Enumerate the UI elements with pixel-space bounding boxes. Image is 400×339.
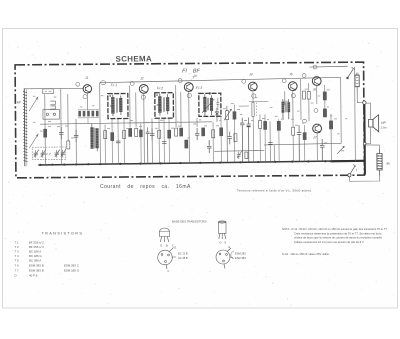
svg-text:BASE DES TRANSISTORS: BASE DES TRANSISTORS bbox=[172, 220, 207, 224]
wire R3b bbox=[140, 123, 142, 163]
cylinder case bbox=[219, 221, 227, 239]
variable cap 3 bbox=[55, 150, 60, 158]
resistor R19 bbox=[323, 109, 326, 117]
node on battery line lower bbox=[363, 142, 366, 145]
wire R21 bbox=[304, 125, 306, 161]
power switch lever bbox=[350, 164, 356, 174]
T3 stage vertical wires bbox=[176, 85, 198, 163]
wire mid line left bbox=[214, 149, 264, 152]
wire R15 bbox=[292, 119, 294, 161]
resistor R11 bbox=[259, 120, 262, 128]
svg-text:D: D bbox=[15, 274, 17, 278]
capacitor C7 bbox=[240, 118, 245, 162]
capacitor pair under pot bbox=[228, 132, 232, 145]
paper scan speckle bbox=[5, 31, 395, 306]
slash cap bottom bbox=[237, 151, 242, 159]
voltage bubble T4b bbox=[252, 94, 256, 98]
wire top rail left bbox=[25, 87, 84, 89]
IF can FI1 bbox=[108, 93, 128, 118]
tuning arrow 2 bbox=[29, 134, 38, 148]
resistor Ra bbox=[104, 131, 107, 139]
svg-text:40 P 8: 40 P 8 bbox=[29, 274, 38, 278]
transistor T1 bbox=[83, 85, 91, 93]
electrolytic C8 bbox=[246, 118, 250, 162]
svg-text:AC 38 B: AC 38 B bbox=[178, 256, 188, 260]
svg-text:indique exactement 16 mA pour: indique exactement 16 mA pour une tensio… bbox=[294, 240, 364, 244]
resistor Rb bbox=[111, 133, 114, 141]
battery pile bbox=[377, 149, 382, 176]
wire top right to jack bbox=[310, 65, 348, 68]
resistor R17 bbox=[307, 92, 310, 100]
capacitor C3b bbox=[146, 127, 150, 163]
resistor R15 bbox=[292, 127, 295, 135]
svg-text:BC 286 A: BC 286 A bbox=[29, 259, 41, 263]
capacitor Cb bbox=[162, 142, 167, 144]
resistor R3 bbox=[129, 128, 132, 136]
volume potentiometer bbox=[224, 106, 232, 162]
voltage bubble T1a bbox=[76, 82, 80, 86]
svg-text:ESM 283 C: ESM 283 C bbox=[64, 264, 79, 268]
svg-text:BC 186 G: BC 186 G bbox=[29, 254, 42, 258]
capacitor C2 bbox=[74, 130, 79, 142]
resistor R1 bbox=[44, 129, 47, 137]
jack connector bbox=[355, 73, 359, 93]
svg-text:F.I.2: F.I.2 bbox=[157, 86, 163, 90]
svg-text:J4: J4 bbox=[249, 73, 253, 77]
svg-text:S-C4 : 100 ou 150 nF valeur 2: S-C4 : 100 ou 150 nF valeur 25V utilise. bbox=[282, 252, 330, 256]
svg-text:T 4: T 4 bbox=[15, 254, 20, 258]
thermistor arrow bbox=[337, 146, 344, 154]
mid generic vertical wires bbox=[105, 116, 221, 164]
resistor row under T1 bbox=[78, 111, 98, 117]
svg-text:Courant de repos ca. 16mA: Courant de repos ca. 16mA bbox=[100, 184, 191, 190]
wire jack to battery line bbox=[357, 93, 364, 103]
svg-text:2,5in: 2,5in bbox=[380, 125, 388, 129]
brace bbox=[231, 252, 234, 259]
svg-text:Tensions relevees a l'aide d'u: Tensions relevees a l'aide d'un V.L. 20k… bbox=[237, 189, 312, 193]
svg-text:MF: MF bbox=[17, 100, 22, 104]
resistor R13 bbox=[245, 152, 248, 159]
capacitor C11 bbox=[268, 143, 272, 145]
svg-text:SCHEMA: SCHEMA bbox=[115, 54, 152, 63]
svg-text:Cette resistance determine la: Cette resistance determine la polarisati… bbox=[294, 231, 382, 235]
svg-text:ESM 283: ESM 283 bbox=[235, 252, 246, 256]
resistor R4 bbox=[135, 128, 138, 136]
resistor R9 bbox=[233, 112, 236, 120]
resistor Rd bbox=[158, 130, 161, 138]
resistor R18 bbox=[323, 92, 326, 100]
junction dots on bus bbox=[39, 160, 356, 166]
voltage bubble T5b bbox=[291, 94, 295, 98]
voltage bubble T7a bbox=[303, 119, 307, 123]
bus bottom heavy bbox=[38, 161, 364, 165]
tuning gang CV dashed box bbox=[32, 147, 66, 160]
capacitor C6 bbox=[207, 140, 212, 153]
svg-text:ESM 383: ESM 383 bbox=[235, 256, 246, 260]
transistor T7 bbox=[313, 124, 322, 133]
svg-text:T 3: T 3 bbox=[15, 250, 20, 254]
svg-text:BF 255 s/ 2: BF 255 s/ 2 bbox=[29, 241, 44, 245]
svg-text:ESM 185 G: ESM 185 G bbox=[64, 269, 80, 273]
variable cap 2 bbox=[41, 150, 46, 158]
driver transformer bbox=[281, 99, 290, 119]
resistor R6 bbox=[180, 128, 183, 136]
svg-text:T 2: T 2 bbox=[15, 245, 20, 249]
svg-text:T 1: T 1 bbox=[15, 241, 20, 245]
resistor R20 bbox=[329, 121, 332, 129]
IF can FI3 bbox=[199, 93, 221, 116]
nota block bbox=[282, 227, 387, 256]
rotated label ink bbox=[255, 102, 257, 115]
T2 stage vertical wires bbox=[130, 85, 153, 163]
battery feed heavy vertical bbox=[363, 103, 366, 175]
resistor R14 bbox=[277, 121, 280, 130]
wire agc line bbox=[40, 122, 212, 124]
IF can FI2 bbox=[155, 93, 174, 119]
svg-text:J1: J1 bbox=[85, 76, 89, 80]
svg-text:J6: J6 bbox=[313, 88, 317, 92]
wire R9 bbox=[233, 105, 235, 162]
capacitor Ca bbox=[116, 141, 121, 143]
svg-text:F.I.1: F.I.1 bbox=[111, 83, 117, 87]
wire top rail mid bbox=[100, 77, 341, 82]
battery bottom wire bbox=[349, 176, 379, 182]
pinout circle left bbox=[158, 248, 176, 270]
svg-text:TRANSISTORS: TRANSISTORS bbox=[42, 232, 84, 236]
voltage bubble T6a bbox=[302, 74, 306, 78]
wire mid line right bbox=[264, 143, 341, 145]
oval label near T1 bbox=[101, 81, 106, 85]
resistor Rf bbox=[212, 130, 215, 138]
node on battery line upper bbox=[363, 101, 366, 104]
voltage bubble T3a bbox=[178, 79, 182, 83]
earphone jack switch bbox=[346, 67, 354, 79]
resistor R16 bbox=[302, 91, 305, 99]
resistor R7 bbox=[185, 140, 188, 148]
voltage bubble T6b bbox=[313, 65, 317, 69]
input coupling box bbox=[43, 89, 60, 119]
svg-text:ESM 283 B: ESM 283 B bbox=[29, 264, 44, 268]
transistor list bbox=[15, 241, 80, 278]
capacitor C3 bbox=[150, 128, 155, 140]
resistor Rg bbox=[220, 128, 223, 136]
svg-text:D 8: D 8 bbox=[220, 241, 228, 245]
T5 stage vertical wires bbox=[270, 79, 302, 162]
wire hsegment detector bbox=[239, 101, 269, 106]
tiny value label smudges bbox=[33, 89, 348, 153]
transistor T6 bbox=[312, 77, 321, 86]
pinout circle right bbox=[216, 248, 233, 269]
svg-text:J2: J2 bbox=[140, 76, 144, 80]
svg-text:NOTA - R 13 : 80 kO, 100 kO,: NOTA - R 13 : 80 kO, 100 kO, 120 kO ou 1… bbox=[282, 227, 387, 231]
svg-text:BC 186 A: BC 186 A bbox=[29, 250, 41, 254]
resistor R5 bbox=[175, 128, 178, 136]
output stage vertical wires bbox=[309, 67, 356, 162]
speaker wires bbox=[366, 103, 371, 144]
wire R14 bbox=[278, 119, 280, 161]
svg-text:J7: J7 bbox=[313, 136, 317, 140]
capacitor C9 bbox=[297, 125, 302, 161]
voltage bubble T4a bbox=[242, 79, 246, 83]
capacitor C10 bbox=[320, 139, 325, 162]
wire R12 bbox=[264, 114, 266, 162]
TO-92 case bbox=[160, 228, 170, 242]
oscillator coil bbox=[90, 124, 98, 152]
wire R11 bbox=[259, 114, 261, 162]
node at FI3 can top bbox=[209, 92, 211, 94]
svg-text:I: I bbox=[356, 168, 357, 172]
voltage bubble T5a bbox=[282, 79, 286, 83]
WIRES bbox=[25, 66, 349, 153]
FI1 pins bbox=[112, 119, 124, 125]
left stage vertical wires bbox=[45, 83, 101, 165]
svg-text:E B C: E B C bbox=[161, 244, 176, 248]
svg-text:BC 21 B: BC 21 B bbox=[178, 252, 188, 256]
voltage bubble T1b bbox=[83, 95, 87, 99]
svg-text:C: C bbox=[168, 270, 170, 273]
resistor R3b bbox=[139, 130, 142, 137]
resistor R12 bbox=[264, 121, 267, 129]
svg-text:9v: 9v bbox=[386, 161, 390, 165]
resistor R10 tall bbox=[252, 102, 254, 116]
voltage bubble T2a bbox=[130, 82, 134, 86]
bus heavy right segment bbox=[330, 160, 365, 163]
resistor under pot bbox=[234, 134, 237, 142]
resistor Rc bbox=[123, 131, 126, 139]
resistor R8 bbox=[202, 128, 205, 136]
capacitor C1 bbox=[59, 127, 64, 139]
wire under resistor row bbox=[78, 110, 99, 124]
svg-text:BF 255 s/ 4: BF 255 s/ 4 bbox=[29, 245, 44, 249]
svg-text:J5: J5 bbox=[289, 72, 293, 76]
variable cap 1 bbox=[34, 150, 39, 158]
svg-text:T 7: T 7 bbox=[15, 269, 20, 273]
transistor T3 bbox=[184, 83, 193, 92]
svg-text:ESM 383 B: ESM 383 B bbox=[29, 269, 44, 273]
svg-text:FI _ BF: FI _ BF bbox=[182, 68, 200, 74]
variable cap 4 bbox=[61, 149, 66, 157]
speaker bbox=[369, 115, 379, 132]
tuning arrow 1 bbox=[29, 97, 38, 111]
svg-text:choisie de facon que la mesure: choisie de facon que la mesure du couran… bbox=[294, 236, 382, 240]
detector diode bbox=[215, 108, 218, 122]
svg-text:F.I.3: F.I.3 bbox=[196, 86, 202, 90]
FI2 pins bbox=[159, 118, 169, 124]
driver label ink bbox=[283, 100, 288, 102]
voltage bubble T3b bbox=[187, 93, 191, 97]
transistor T4 bbox=[248, 82, 257, 91]
ferrite antenna bar bbox=[23, 88, 38, 166]
resistor R21 bbox=[303, 133, 306, 140]
voltage bubble T7b bbox=[314, 109, 318, 113]
wire R10 bbox=[252, 92, 255, 162]
svg-text:T 6: T 6 bbox=[15, 264, 20, 268]
svg-text:J3: J3 bbox=[193, 74, 197, 78]
svg-text:HP: HP bbox=[381, 121, 386, 125]
transistor T5 bbox=[288, 82, 297, 91]
power switch node bbox=[348, 174, 351, 177]
frame dash-dot border bbox=[15, 62, 364, 178]
svg-text:T 5: T 5 bbox=[15, 259, 20, 263]
capacitor C5 bbox=[195, 128, 200, 140]
resistor Re bbox=[168, 130, 171, 138]
battery top wire bbox=[366, 145, 379, 149]
transistor T2 bbox=[139, 84, 148, 93]
voltage bubble T2b bbox=[141, 95, 145, 99]
resistor R2 bbox=[67, 141, 70, 149]
